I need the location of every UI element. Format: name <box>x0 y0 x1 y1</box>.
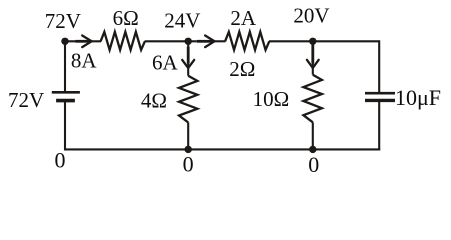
wire: right-mid branch lower (R4 to bottom rail) <box>312 122 314 149</box>
svg-text:0: 0 <box>55 148 66 173</box>
capacitor C1 10uF top plate <box>365 92 395 95</box>
wire: middle branch lower (R3 to bottom rail) <box>187 122 189 149</box>
resistor R4 10 ohm vertical zigzag <box>303 75 322 123</box>
current arrow 6A shaft (down into R3) <box>187 47 190 64</box>
node C dot (top right, 20V node) <box>309 38 316 45</box>
battery V1 72V bottom plate (short thick, negative) <box>56 99 75 103</box>
svg-text:10μF: 10μF <box>395 85 441 110</box>
current arrow 8A head <box>82 36 91 48</box>
svg-text:2A: 2A <box>230 6 257 30</box>
svg-text:8A: 8A <box>71 49 98 73</box>
node ground dot right (0 node) <box>309 146 316 153</box>
current arrow shaft (down into R4) <box>311 45 314 64</box>
current arrow 6A head <box>182 60 194 68</box>
current arrow 2A head <box>205 36 214 48</box>
svg-text:10Ω: 10Ω <box>253 87 290 111</box>
svg-text:24V: 24V <box>164 9 200 33</box>
svg-text:6A: 6A <box>152 50 179 74</box>
battery V1 72V top plate (long thin, positive) <box>52 91 80 94</box>
svg-text:0: 0 <box>183 152 194 177</box>
svg-text:6Ω: 6Ω <box>113 6 139 30</box>
wire: right-mid branch stub from node C <box>312 41 314 74</box>
wire: left rail upper (node A down to battery top plate) <box>64 40 66 92</box>
wire: bottom rail (ground net) <box>64 148 380 150</box>
svg-text:72V: 72V <box>8 88 44 112</box>
node ground dot middle (0 node) <box>185 146 192 153</box>
current arrow 8A shaft <box>75 40 88 43</box>
node A dot (top left, 72V node) <box>61 38 68 45</box>
wire: top rail R1 to node B <box>145 40 197 42</box>
wire: top rail R2 to node C and top-right corner <box>269 40 379 42</box>
wire: top rail node A to resistor R1 <box>65 40 101 42</box>
svg-text:0: 0 <box>308 152 319 177</box>
wire: right rail lower (capacitor down to bottom-right corner) <box>378 100 380 150</box>
resistor R2 2 ohm zigzag <box>225 32 269 50</box>
capacitor C1 10uF bottom plate <box>365 99 395 102</box>
node B dot (top middle, 24V node) <box>185 38 192 45</box>
wire: top rail node B to resistor R2 <box>211 40 225 42</box>
wire: left rail lower (battery to bottom rail) <box>64 101 66 151</box>
svg-text:72V: 72V <box>45 9 81 33</box>
current arrow 2A shaft (into R2) <box>197 40 211 43</box>
svg-text:20V: 20V <box>293 4 329 28</box>
resistor R3 4 ohm vertical zigzag <box>179 76 197 123</box>
wire: right rail upper (top-right corner down to capacitor) <box>378 40 380 92</box>
wire: middle branch stub from node B <box>187 41 189 75</box>
resistor R1 6 ohm zigzag <box>101 32 145 50</box>
svg-text:4Ω: 4Ω <box>141 88 167 112</box>
current arrow head (into R4) <box>307 60 319 68</box>
svg-text:2Ω: 2Ω <box>229 57 255 81</box>
